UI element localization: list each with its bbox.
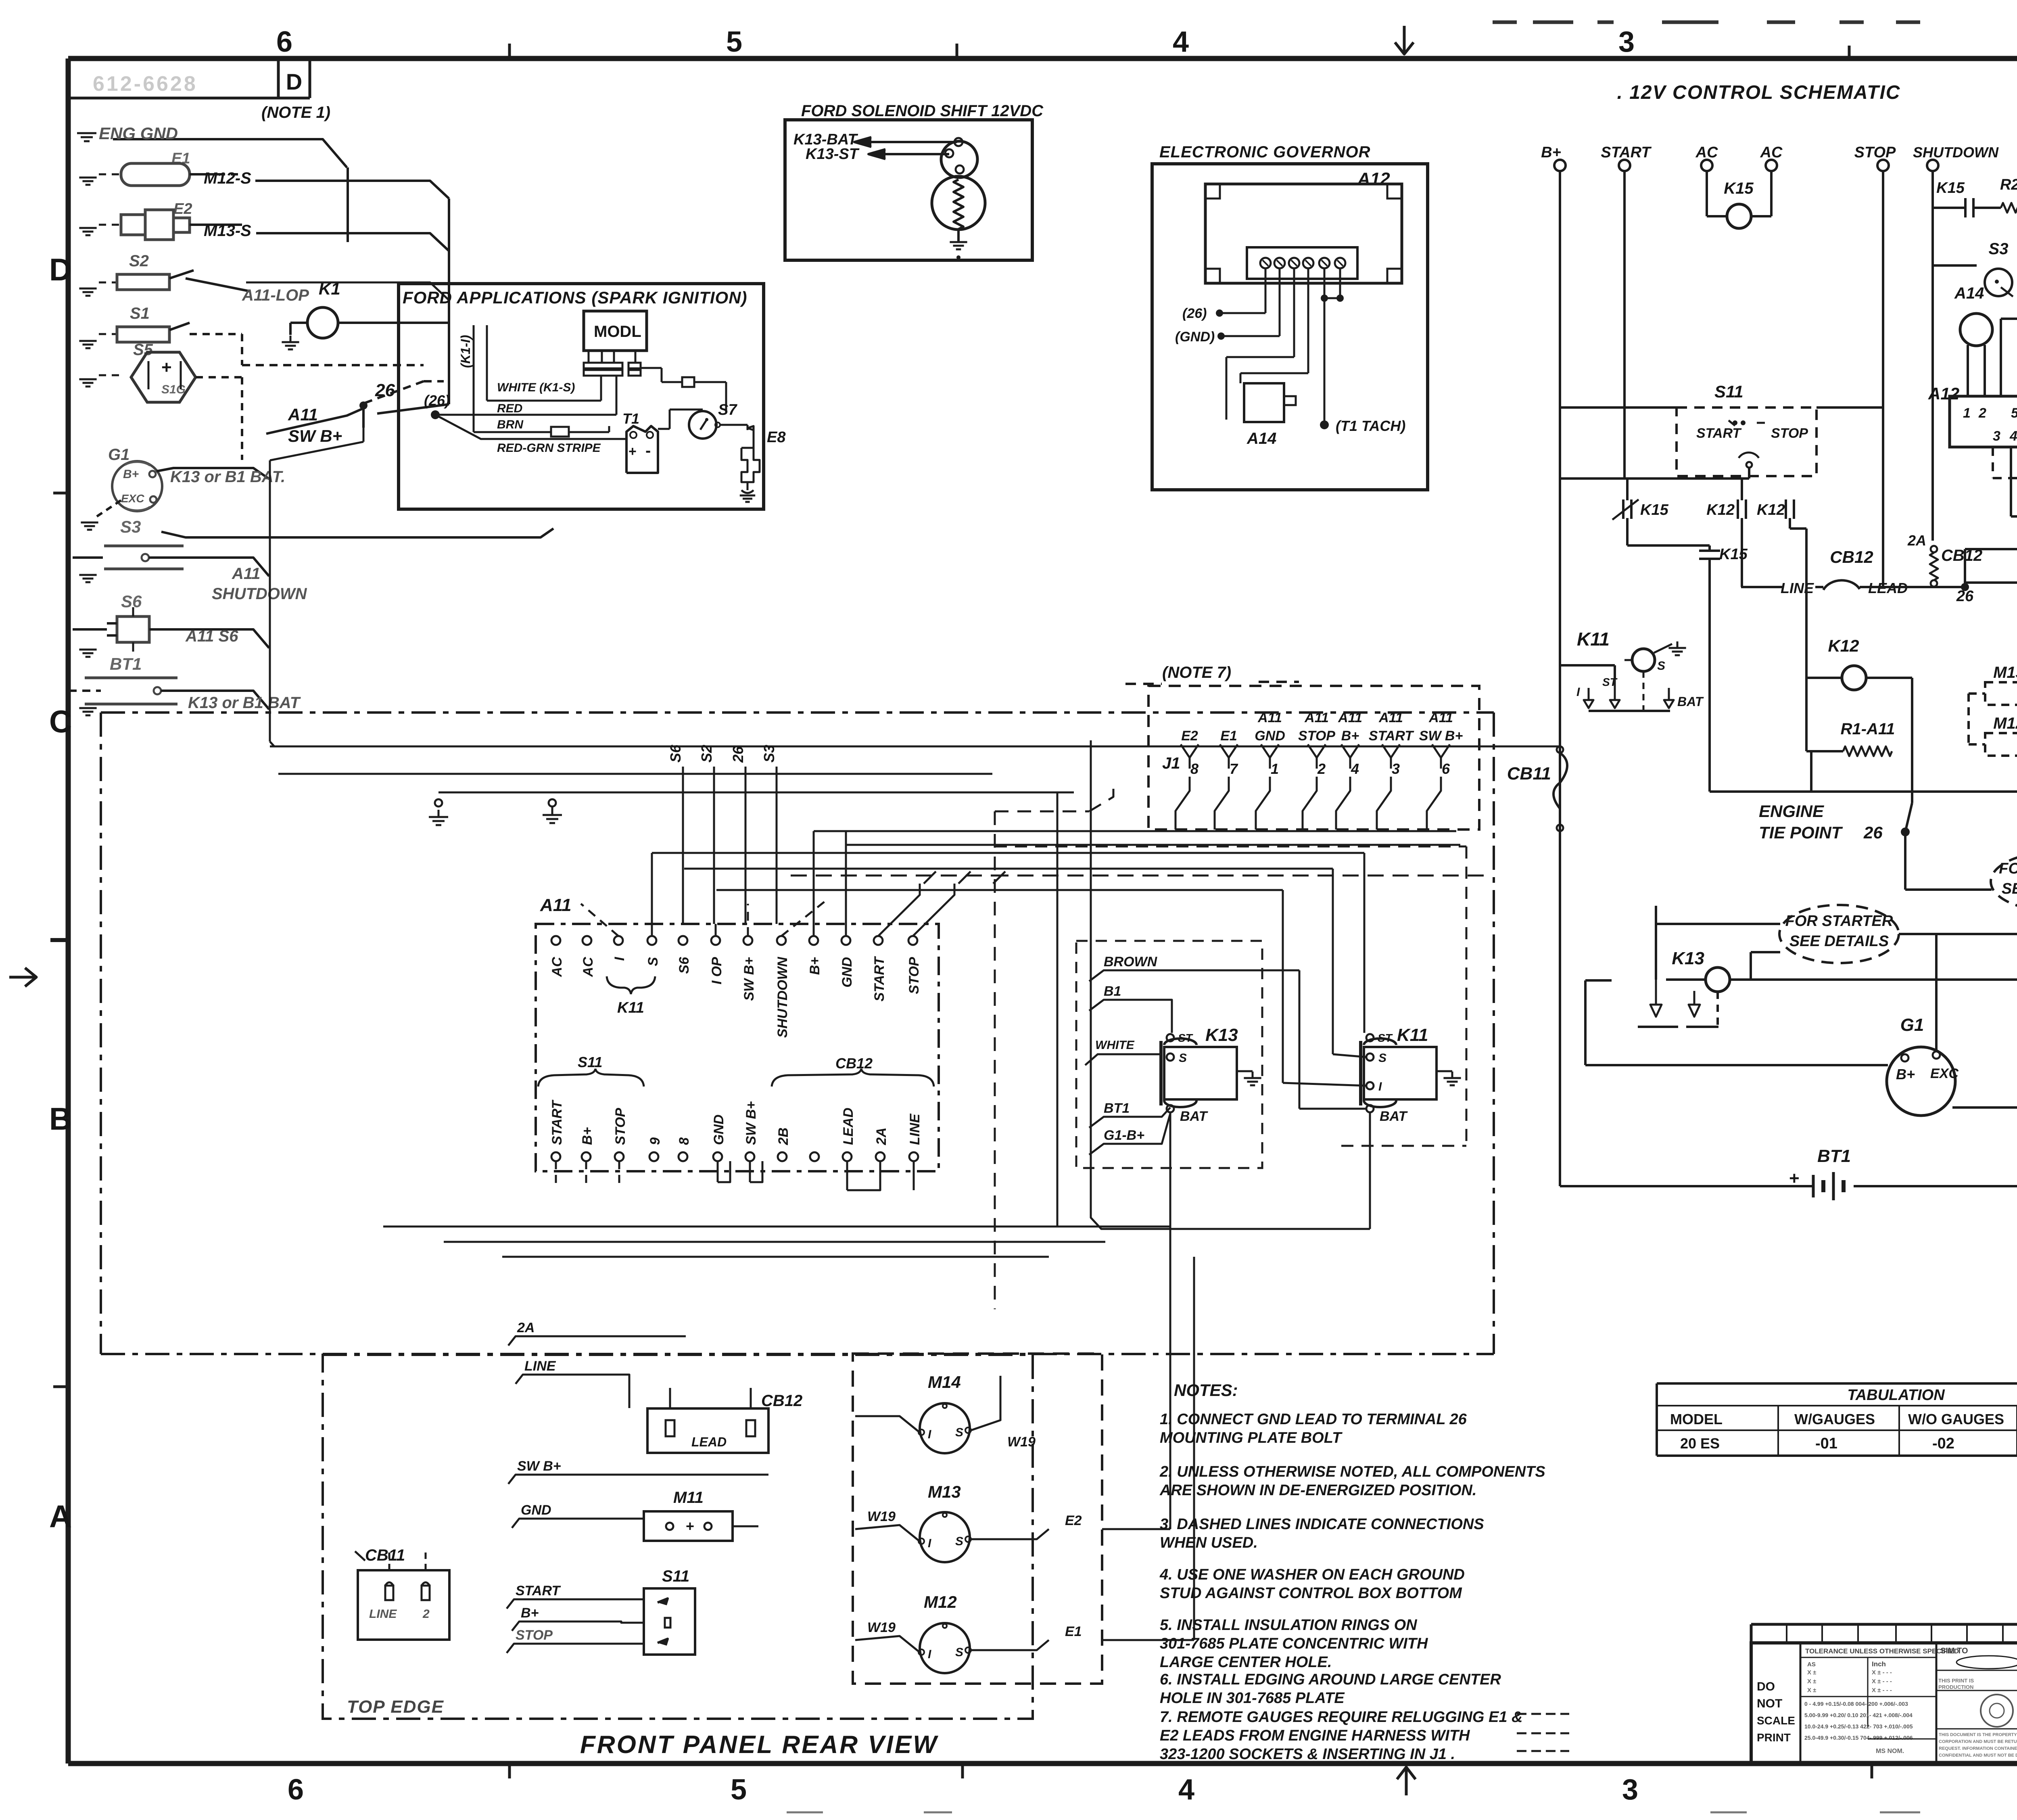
svg-text:LINE: LINE [907, 1113, 923, 1145]
svg-text:SIM TO: SIM TO [1940, 1647, 1968, 1655]
svg-text:LEAD: LEAD [691, 1435, 727, 1449]
svg-text:LINE: LINE [1781, 580, 1814, 596]
svg-text:J1: J1 [1162, 754, 1180, 772]
solenoid body with resistor [932, 176, 985, 230]
ground ford solenoid [950, 241, 967, 243]
svg-text:2: 2 [422, 1607, 430, 1621]
starter detail grounds [1638, 1026, 1678, 1028]
svg-text:5. INSTALL INSULATION RINGS O: 5. INSTALL INSULATION RINGS ON [1160, 1617, 1418, 1634]
svg-text:1: 1 [1963, 405, 1971, 421]
svg-text:S1G: S1G [161, 383, 186, 396]
control box dash-dot outline [101, 711, 1494, 714]
svg-text:STOP: STOP [1854, 144, 1896, 161]
svg-text:Inch: Inch [1872, 1660, 1886, 1668]
meters dashed box [853, 1354, 1102, 1684]
long vertical wires center [1057, 792, 1059, 1227]
title block main box [1751, 1643, 2017, 1764]
svg-text:2A: 2A [874, 1128, 889, 1145]
svg-text:K1: K1 [319, 279, 340, 298]
svg-text:3: 3 [1622, 1774, 1638, 1806]
zone tick marks [508, 44, 511, 59]
svg-text:GND: GND [839, 957, 855, 988]
svg-text:CORPORATION AND MUST BE RETURN: CORPORATION AND MUST BE RETURNED UPON [1939, 1739, 2017, 1744]
svg-text:WHEN USED.: WHEN USED. [1160, 1534, 1258, 1551]
wire shutdown to S3 [1933, 264, 1977, 267]
dashed box K11 group [995, 846, 1466, 848]
svg-text:PRODUCTION: PRODUCTION [1938, 1684, 1973, 1690]
svg-text:BROWN: BROWN [1104, 954, 1158, 970]
svg-text:W19: W19 [867, 1509, 896, 1524]
svg-text:2A: 2A [1907, 532, 1926, 549]
svg-text:M12: M12 [1993, 715, 2017, 732]
svg-text:MODEL: MODEL [1670, 1411, 1723, 1427]
svg-text:SEE DETAILS: SEE DETAILS [1789, 933, 1889, 950]
stub SW B+ [508, 1475, 768, 1484]
svg-text:BAT: BAT [1380, 1109, 1408, 1124]
svg-text:S11: S11 [662, 1567, 689, 1585]
svg-text:K12: K12 [1757, 501, 1785, 518]
svg-text:I: I [1576, 685, 1580, 699]
svg-text:6: 6 [1442, 761, 1450, 777]
svg-text:STUD AGAINST CONTROL BOX BOTTO: STUD AGAINST CONTROL BOX BOTTOM [1160, 1585, 1462, 1602]
wire G1 EXC to gnd bus [1952, 1106, 2017, 1109]
svg-text:6: 6 [276, 26, 292, 58]
svg-text:301-7685 PLATE CONCENTRIC WITH: 301-7685 PLATE CONCENTRIC WITH [1160, 1635, 1428, 1652]
svg-text:B+: B+ [123, 468, 139, 481]
svg-text:STOP: STOP [906, 957, 922, 994]
svg-text:B+: B+ [1341, 728, 1359, 744]
svg-text:CB11: CB11 [365, 1546, 405, 1564]
svg-text:AC: AC [549, 957, 565, 978]
svg-text:LEAD: LEAD [841, 1107, 856, 1145]
svg-text:B: B [49, 1101, 72, 1137]
svg-text:START: START [1696, 426, 1742, 441]
svg-text:CB12: CB12 [1830, 547, 1873, 566]
svg-text:4. USE ONE WASHER ON EACH GROU: 4. USE ONE WASHER ON EACH GROUND [1159, 1566, 1465, 1583]
svg-text:BRN: BRN [497, 418, 524, 431]
svg-text:B+: B+ [1541, 144, 1561, 161]
svg-text:START: START [549, 1099, 565, 1145]
svg-text:SHUTDOWN: SHUTDOWN [1913, 144, 1999, 161]
svg-text:S6: S6 [667, 744, 684, 763]
svg-text:(NOTE 7): (NOTE 7) [1162, 664, 1231, 681]
svg-text:TOLERANCE UNLESS OTHERWISE SPE: TOLERANCE UNLESS OTHERWISE SPECIFIED [1805, 1647, 1959, 1655]
svg-text:S11: S11 [1714, 382, 1743, 401]
wire bundle lower [383, 1226, 1170, 1228]
svg-text:S3: S3 [1989, 240, 2009, 258]
wires E6 to A12 [2001, 318, 2017, 320]
svg-text:STOP: STOP [516, 1628, 553, 1643]
svg-text:0 - 4.99 +0.15/-0.08 00: 0 - 4.99 +0.15/-0.08 004- 200 +.006/-.00… [1804, 1701, 1908, 1707]
svg-text:GND: GND [711, 1114, 727, 1145]
svg-text:X ± - - -: X ± - - - [1872, 1669, 1892, 1676]
svg-text:EXC: EXC [121, 492, 144, 505]
svg-text:K12: K12 [1706, 501, 1735, 518]
arrows to starter ground [1650, 908, 1662, 1017]
svg-text:A14: A14 [1954, 284, 1984, 302]
svg-text:K12: K12 [1828, 636, 1859, 655]
svg-text:6: 6 [288, 1774, 304, 1806]
svg-text:GND: GND [1255, 728, 1285, 744]
svg-text:K15: K15 [1719, 546, 1748, 563]
production stamp [1981, 1695, 2013, 1727]
svg-text:K13-ST: K13-ST [806, 146, 860, 163]
svg-text:S6: S6 [121, 592, 142, 611]
svg-text:(26): (26) [1182, 306, 1207, 321]
svg-text:ST: ST [1178, 1032, 1194, 1044]
wire B+ to START bus jumper [1560, 477, 1749, 480]
svg-text:A: A [49, 1498, 72, 1534]
svg-text:SEE DETAILS: SEE DETAILS [2002, 880, 2017, 897]
svg-text:THIS PRINT IS: THIS PRINT IS [1938, 1678, 1974, 1684]
svg-text:-01: -01 [1815, 1435, 1837, 1452]
left collector vertical wire [347, 167, 349, 242]
svg-text:K15: K15 [1724, 180, 1754, 197]
svg-text:ENGINE: ENGINE [1759, 802, 1825, 821]
svg-text:W19: W19 [867, 1620, 896, 1635]
svg-text:5: 5 [2011, 405, 2017, 421]
svg-text:ELECTRONIC GOVERNOR: ELECTRONIC GOVERNOR [1159, 143, 1370, 161]
wire pin5/6 to T1 TACH [1324, 268, 1326, 298]
svg-text:FRONT PANEL REAR VIEW: FRONT PANEL REAR VIEW [580, 1731, 938, 1759]
tolerance cell [1936, 1643, 1938, 1764]
svg-text:-02: -02 [1932, 1435, 1954, 1452]
svg-text:LINE: LINE [369, 1607, 397, 1621]
svg-text:B+: B+ [807, 957, 823, 975]
svg-text:S: S [955, 1535, 963, 1548]
svg-text:M13: M13 [1993, 664, 2017, 681]
svg-text:START: START [1369, 728, 1414, 744]
wire pin4 to A14 [1307, 268, 1309, 373]
svg-text:R1-A11: R1-A11 [1841, 720, 1895, 738]
svg-text:X ±: X ± [1807, 1678, 1816, 1685]
svg-text:AC: AC [1695, 144, 1718, 161]
svg-text:ENG GND: ENG GND [99, 124, 178, 143]
svg-text:BAT: BAT [1677, 694, 1704, 709]
svg-text:3. DASHED LINES INDICATE CONNE: 3. DASHED LINES INDICATE CONNECTIONS [1160, 1516, 1484, 1533]
svg-text:+: + [161, 357, 172, 377]
svg-text:2A: 2A [517, 1320, 535, 1335]
svg-text:CONFIDENTIAL AND MUST NOT BE D: CONFIDENTIAL AND MUST NOT BE DISCLOSED. [1939, 1753, 2017, 1758]
svg-text:K11: K11 [617, 999, 644, 1016]
wires meters to panel [1000, 1376, 1002, 1388]
svg-text:S: S [1378, 1051, 1386, 1065]
arrow wires [863, 141, 957, 143]
do not scale print cell [1800, 1643, 1802, 1764]
note7 dashes [1517, 1713, 1569, 1715]
svg-text:B+: B+ [580, 1127, 595, 1145]
svg-text:BAT: BAT [1180, 1109, 1209, 1124]
svg-text:+: + [686, 1518, 694, 1534]
svg-text:D: D [286, 69, 302, 94]
svg-text:BT1: BT1 [1104, 1101, 1130, 1116]
svg-text:FORD APPLICATIONS (SPARK IGNIT: FORD APPLICATIONS (SPARK IGNITION) [403, 288, 748, 307]
svg-text:E1: E1 [1065, 1624, 1082, 1639]
svg-text:I: I [928, 1537, 931, 1550]
dashed box K13 detail [1076, 941, 1262, 1168]
svg-text:3: 3 [1993, 428, 2000, 444]
svg-text:S11: S11 [578, 1054, 602, 1070]
svg-text:S2: S2 [698, 745, 715, 763]
svg-text:DO: DO [1757, 1680, 1775, 1693]
svg-text:A11: A11 [540, 895, 571, 915]
svg-text:AC: AC [1760, 144, 1783, 161]
svg-text:WHITE: WHITE [1095, 1039, 1135, 1052]
svg-text:2B: 2B [776, 1128, 791, 1145]
svg-text:25.0-49.9 +0.30/-0.15 70: 25.0-49.9 +0.30/-0.15 704- 999 +.012/-.0… [1804, 1734, 1913, 1741]
svg-text:S: S [1179, 1051, 1187, 1065]
stub label B1 [1089, 1000, 1172, 1033]
svg-text:(K1-I): (K1-I) [458, 335, 473, 368]
svg-text:GND: GND [521, 1502, 551, 1518]
svg-text:K15: K15 [1640, 501, 1669, 518]
svg-text:E2: E2 [173, 201, 192, 217]
svg-text:4: 4 [1173, 26, 1189, 58]
svg-text:MODL: MODL [594, 323, 641, 341]
svg-text:CB11: CB11 [1507, 764, 1551, 784]
svg-text:612-6628: 612-6628 [93, 72, 198, 96]
svg-text:(26): (26) [424, 392, 450, 409]
dashed row below S5 [2010, 447, 2012, 516]
svg-text:START: START [1601, 144, 1652, 161]
svg-text:2. UNLESS OTHERWISE NOTED, ALL: 2. UNLESS OTHERWISE NOTED, ALL COMPONENT… [1159, 1463, 1545, 1480]
svg-text:G1: G1 [108, 446, 129, 464]
svg-text:AS: AS [1807, 1661, 1816, 1668]
svg-text:B+: B+ [521, 1605, 539, 1621]
stub label G1-B+ [1089, 1114, 1170, 1155]
centering arrow bottom [1405, 1768, 1408, 1795]
svg-text:R2-A11: R2-A11 [2000, 176, 2017, 193]
connector bars [584, 363, 622, 368]
svg-text:X ± - - -: X ± - - - [1872, 1687, 1892, 1694]
svg-text:S3: S3 [761, 745, 777, 763]
centering arrow top [1403, 26, 1406, 53]
svg-text:I: I [612, 956, 627, 961]
svg-text:LINE: LINE [524, 1358, 556, 1374]
svg-text:ST: ST [1378, 1032, 1393, 1044]
long wires from front panel into schematic [992, 746, 1560, 748]
svg-text:B1: B1 [1104, 984, 1121, 999]
long wire to right schematic [270, 746, 992, 748]
svg-text:20 ES: 20 ES [1680, 1435, 1720, 1452]
svg-text:K13: K13 [1205, 1025, 1238, 1045]
svg-text:4: 4 [1351, 761, 1359, 777]
svg-text:(T1 TACH): (T1 TACH) [1336, 418, 1405, 434]
svg-text:2: 2 [1317, 761, 1326, 777]
svg-text:LARGE CENTER HOLE.: LARGE CENTER HOLE. [1160, 1654, 1332, 1671]
wire pin3 to A14 [1293, 268, 1295, 357]
svg-text:D: D [49, 252, 72, 287]
grounds on panel [435, 799, 442, 807]
svg-text:STOP: STOP [613, 1108, 628, 1145]
svg-text:RED: RED [497, 402, 522, 415]
svg-text:M12: M12 [924, 1592, 957, 1611]
stub label WHITE [1085, 1054, 1162, 1065]
svg-text:SHUTDOWN: SHUTDOWN [775, 957, 790, 1038]
svg-text:E2 LEADS FROM ENGINE HARNESS W: E2 LEADS FROM ENGINE HARNESS WITH [1160, 1727, 1470, 1744]
svg-text:K13 or B1 BAT.: K13 or B1 BAT. [170, 468, 285, 486]
svg-text:1. CONNECT GND LEAD TO TERMINA: 1. CONNECT GND LEAD TO TERMINAL 26 [1160, 1411, 1467, 1428]
svg-text:S: S [955, 1426, 963, 1439]
svg-text:NOT: NOT [1757, 1697, 1782, 1710]
svg-text:CB12: CB12 [1941, 547, 1982, 564]
tabulation table [1657, 1382, 2017, 1385]
svg-text:. 12V CONTROL SCHEMATIC: . 12V CONTROL SCHEMATIC [1617, 82, 1901, 103]
svg-text:E8: E8 [767, 429, 786, 446]
svg-text:EXC: EXC [1930, 1066, 1959, 1081]
svg-text:2: 2 [1978, 405, 1986, 421]
svg-text:7. REMOTE GAUGES REQUIRE RELUG: 7. REMOTE GAUGES REQUIRE RELUGGING E1 & [1160, 1709, 1522, 1726]
BAT wires down [1169, 1112, 1171, 1529]
svg-text:TOP EDGE: TOP EDGE [347, 1697, 444, 1717]
svg-text:A12: A12 [1928, 384, 1959, 403]
svg-text:START: START [872, 956, 887, 1001]
svg-text:X ±: X ± [1807, 1687, 1816, 1694]
svg-text:8: 8 [677, 1137, 692, 1145]
svg-text:RED-GRN STRIPE: RED-GRN STRIPE [497, 441, 601, 455]
svg-text:E1: E1 [1220, 728, 1237, 744]
svg-text:S: S [645, 957, 661, 966]
svg-text:6. INSTALL EDGING AROUND LARG: 6. INSTALL EDGING AROUND LARGE CENTER [1160, 1671, 1501, 1688]
svg-text:A11: A11 [288, 405, 318, 424]
svg-text:SW B+: SW B+ [288, 426, 342, 445]
scan smudge marks [1493, 21, 1517, 24]
stub GND [512, 1519, 644, 1528]
svg-text:26: 26 [1863, 823, 1883, 842]
top pin wires [581, 904, 618, 936]
svg-text:THIS DOCUMENT IS THE PROPERTY: THIS DOCUMENT IS THE PROPERTY OF ONAN [1939, 1732, 2017, 1737]
svg-text:START: START [516, 1583, 561, 1599]
svg-text:1: 1 [1271, 761, 1279, 777]
svg-text:REQUEST. INFORMATION CONTAINED: REQUEST. INFORMATION CONTAINED WITHIN IS [1939, 1746, 2017, 1751]
svg-text:A11: A11 [232, 565, 260, 583]
svg-text:S: S [1657, 659, 1665, 673]
svg-text:E2: E2 [1181, 728, 1198, 744]
svg-text:W/GAUGES: W/GAUGES [1794, 1411, 1875, 1427]
svg-text:M14: M14 [928, 1373, 961, 1392]
svg-text:E2: E2 [1065, 1513, 1082, 1528]
K15 contact + R2-A11 + S2 row [1933, 207, 1965, 209]
svg-text:S2: S2 [129, 252, 149, 270]
svg-text:NOTES:: NOTES: [1174, 1381, 1238, 1400]
svg-text:WHITE (K1-S): WHITE (K1-S) [497, 381, 575, 394]
stub LINE [516, 1375, 629, 1408]
inner dashed box right edge [994, 811, 996, 1309]
svg-text:M11: M11 [673, 1489, 704, 1507]
svg-text:B+: B+ [1896, 1066, 1915, 1082]
svg-text:W19: W19 [1007, 1434, 1036, 1450]
svg-text:K13: K13 [1672, 949, 1704, 968]
svg-text:SW B+: SW B+ [743, 1101, 759, 1145]
bottom pin wires [555, 1161, 557, 1186]
svg-text:I: I [928, 1648, 931, 1661]
svg-text:S1: S1 [130, 305, 150, 322]
wire G1 to A11 [157, 468, 269, 479]
svg-text:M13: M13 [928, 1482, 961, 1501]
svg-text:BT1: BT1 [1817, 1146, 1851, 1166]
svg-text:A14: A14 [1247, 430, 1276, 447]
svg-text:5: 5 [731, 1774, 747, 1806]
terminal strip [1247, 247, 1357, 279]
svg-text:K15: K15 [1936, 180, 1965, 196]
svg-text:SW B+: SW B+ [741, 957, 757, 1001]
svg-text:TABULATION: TABULATION [1847, 1387, 1945, 1404]
svg-text:K11: K11 [1397, 1025, 1428, 1045]
svg-text:X ±: X ± [1807, 1669, 1816, 1676]
svg-text:T1: T1 [622, 410, 639, 427]
svg-text:I: I [1378, 1080, 1382, 1093]
svg-text:3: 3 [1392, 761, 1400, 777]
svg-text:M12-S: M12-S [204, 169, 251, 187]
svg-text:SCALE: SCALE [1757, 1714, 1795, 1727]
svg-text:SW B+: SW B+ [517, 1459, 561, 1474]
ford applications box [399, 284, 764, 509]
svg-text:MS NOM.: MS NOM. [1876, 1748, 1904, 1755]
centering arrow left [9, 976, 35, 979]
svg-text:G1: G1 [1900, 1015, 1924, 1035]
svg-text:A11-LOP: A11-LOP [242, 286, 309, 304]
drawing number ghost box [68, 97, 310, 100]
svg-text:X ± - - -: X ± - - - [1872, 1678, 1892, 1685]
svg-text:8: 8 [1190, 761, 1199, 777]
stub B+ [512, 1621, 644, 1631]
svg-text:W/O GAUGES: W/O GAUGES [1908, 1411, 2004, 1427]
svg-text:323-1200 SOCKETS & INSERTING I: 323-1200 SOCKETS & INSERTING IN J1 . [1160, 1746, 1455, 1763]
svg-text:K11: K11 [1577, 629, 1610, 650]
inner wire runs top [278, 773, 992, 775]
svg-text:K13 or B1 BAT: K13 or B1 BAT [188, 694, 301, 712]
svg-text:A12: A12 [1357, 169, 1390, 189]
svg-text:(GND): (GND) [1175, 329, 1215, 345]
title block header strip [1751, 1623, 2017, 1626]
svg-text:5.00-9.99 +0.20/ 0.10 20: 5.00-9.99 +0.20/ 0.10 201- 421 +.008/-.0… [1804, 1712, 1913, 1718]
solenoid connector circle [941, 141, 977, 178]
module MODL [584, 311, 647, 351]
svg-text:TIE POINT: TIE POINT [1759, 823, 1843, 842]
stub STOP [507, 1644, 644, 1653]
ENG GND label [113, 139, 347, 167]
svg-text:S7: S7 [718, 401, 737, 418]
vertical wire 26 down [363, 408, 365, 442]
stub label BROWN [1089, 970, 1194, 981]
svg-text:FOR STARTER: FOR STARTER [1785, 913, 1893, 930]
svg-text:A11 S6: A11 S6 [185, 627, 238, 645]
svg-text:C: C [49, 704, 72, 739]
svg-text:S: S [955, 1646, 963, 1659]
svg-text:PRINT: PRINT [1757, 1731, 1791, 1744]
svg-text:26: 26 [730, 746, 746, 763]
stub 2A [508, 1336, 686, 1346]
border frame [68, 56, 2017, 61]
svg-text:7: 7 [1230, 761, 1238, 777]
svg-text:(NOTE 1): (NOTE 1) [261, 104, 330, 121]
svg-text:S6: S6 [677, 957, 692, 974]
svg-text:AC: AC [580, 957, 596, 978]
RED-GRN STRIPE wire [435, 415, 626, 439]
stub label BT1 [1089, 1107, 1170, 1128]
svg-text:STOP: STOP [1298, 728, 1335, 744]
wire G1 B+ left [1585, 1064, 1888, 1066]
stub START [507, 1599, 644, 1609]
svg-text:10.0-24.9 +0.25/-0.13 42: 10.0-24.9 +0.25/-0.13 422- 703 +.010/-.0… [1804, 1723, 1913, 1730]
svg-text:SHUTDOWN: SHUTDOWN [212, 585, 307, 603]
svg-text:M13-S: M13-S [204, 222, 251, 240]
svg-text:BT1: BT1 [110, 654, 142, 673]
svg-text:CB12: CB12 [761, 1392, 802, 1410]
svg-text:MOUNTING PLATE BOLT: MOUNTING PLATE BOLT [1160, 1429, 1343, 1446]
svg-text:ARE SHOWN IN DE-ENERGIZED POSI: ARE SHOWN IN DE-ENERGIZED POSITION. [1159, 1482, 1476, 1499]
svg-text:I: I [928, 1428, 931, 1441]
